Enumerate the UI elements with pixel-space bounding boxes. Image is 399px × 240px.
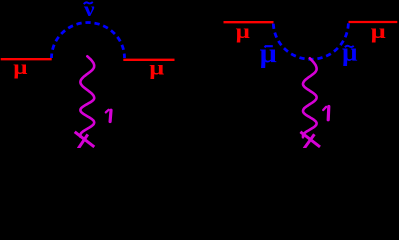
svg-text:μ: μ bbox=[236, 20, 250, 42]
left diagram: label gamma (arm) bbox=[106, 110, 109, 113]
svg-text:μ: μ bbox=[149, 57, 164, 80]
right diagram: smuon loop (blue dashed arc below) bbox=[273, 22, 348, 59]
svg-text:μ: μ bbox=[260, 38, 277, 68]
svg-text:μ: μ bbox=[13, 56, 27, 78]
left diagram: incoming muon line bbox=[1, 58, 52, 60]
left diagram: photon wavy line bbox=[80, 56, 94, 136]
right diagram: label gamma (arm) bbox=[323, 107, 326, 110]
left diagram: photon cross X stroke 1 bbox=[75, 132, 95, 147]
right diagram: outgoing muon line bbox=[349, 21, 398, 23]
right diagram: incoming muon line bbox=[224, 21, 274, 23]
left diagram: tilde over nu bbox=[84, 2, 93, 4]
right diagram: label gamma (stem) bbox=[327, 107, 331, 120]
right diagram: bar over left smuon bbox=[265, 46, 273, 47]
left diagram: outgoing muon line bbox=[123, 59, 174, 61]
left diagram: sneutrino loop (blue dashed arc) bbox=[52, 23, 125, 58]
right diagram: photon cross X stroke 1 bbox=[300, 132, 320, 147]
left diagram: photon cross X stroke 2 bbox=[78, 134, 88, 148]
right diagram: photon cross X stroke 2 bbox=[304, 134, 314, 148]
svg-text:μ: μ bbox=[342, 37, 357, 66]
right diagram: photon wavy line bbox=[303, 58, 317, 137]
svg-text:μ: μ bbox=[371, 21, 387, 43]
left diagram: label gamma (stem) bbox=[108, 110, 112, 121]
right diagram: tilde over right smuon bbox=[345, 46, 354, 48]
